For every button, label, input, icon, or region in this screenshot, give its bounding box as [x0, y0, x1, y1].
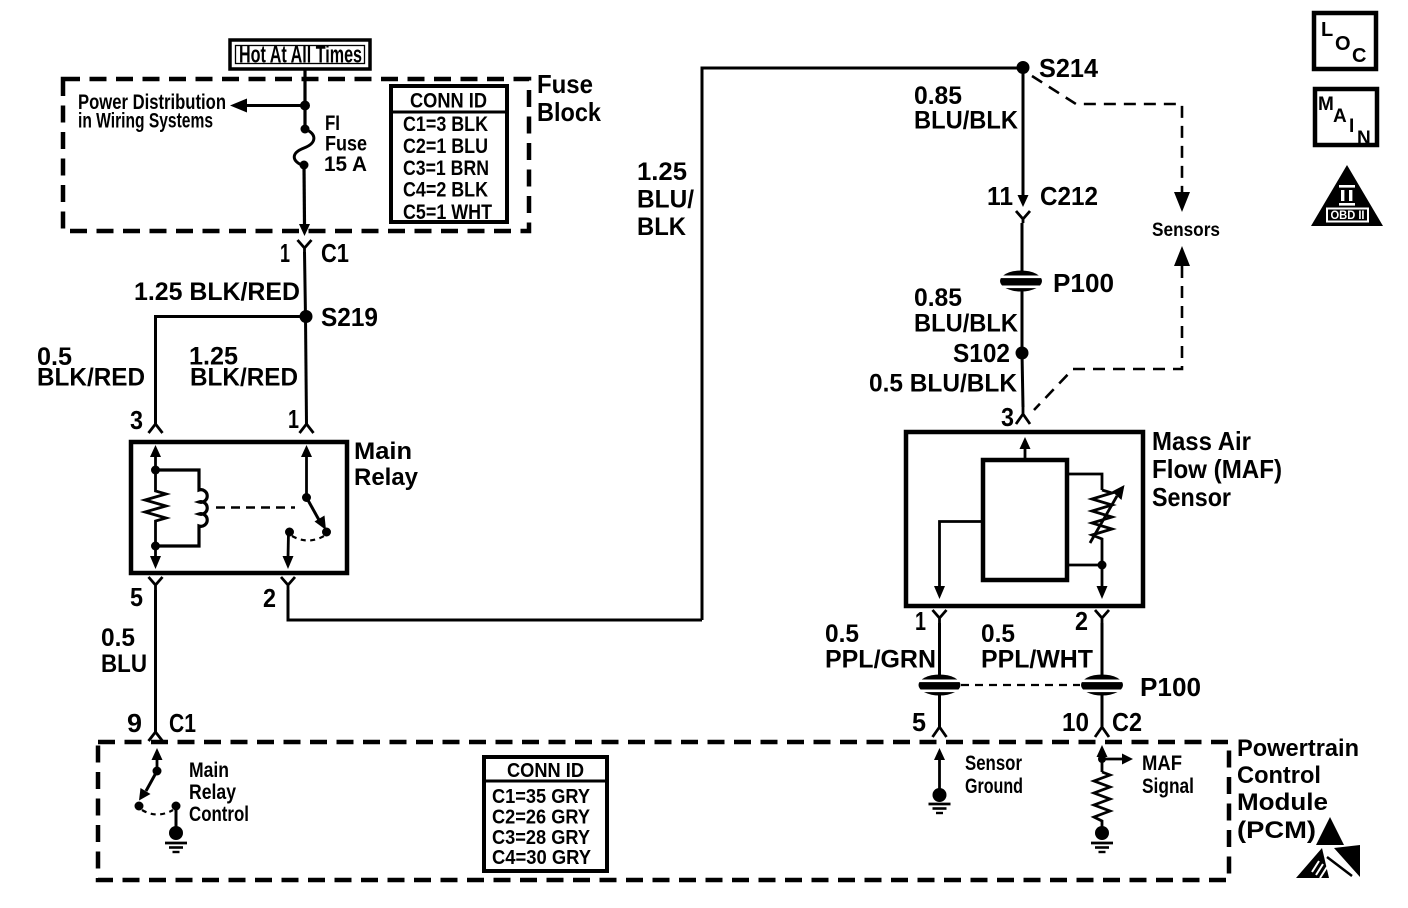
svg-text:C1=3 BLK: C1=3 BLK [403, 113, 488, 136]
svg-text:3: 3 [1001, 402, 1014, 432]
relay switch arm [307, 498, 327, 531]
svg-text:Hot At All Times: Hot At All Times [239, 42, 362, 69]
svg-text:P100: P100 [1140, 672, 1201, 702]
junction on fuse feed [300, 101, 310, 111]
label Sensor Ground [965, 752, 1023, 798]
connector C212 male arrow [1018, 195, 1029, 207]
svg-text:N: N [1357, 128, 1371, 149]
svg-text:PPL/GRN: PPL/GRN [825, 646, 936, 674]
svg-text:Powertrain: Powertrain [1237, 735, 1359, 762]
relay coil top junction [151, 466, 160, 475]
MAF pin 3 fork [1016, 407, 1030, 424]
svg-text:Control: Control [189, 803, 249, 826]
dashed grommet link [961, 684, 1080, 686]
wire label 1.25 BLU/BLK [637, 158, 694, 241]
svg-text:0.85: 0.85 [914, 284, 962, 312]
svg-text:C212: C212 [1040, 181, 1098, 211]
svg-text:9: 9 [127, 708, 142, 738]
MAIN legend box [1315, 89, 1377, 149]
wire label 0.85 BLU/BLK lower [914, 284, 1018, 338]
sensors arrow down [1174, 192, 1190, 212]
relay switch contact right [322, 528, 331, 537]
svg-text:Relay: Relay [189, 781, 236, 804]
svg-text:C1: C1 [321, 238, 349, 268]
MAF internal module box [983, 460, 1067, 580]
svg-text:MAF: MAF [1142, 752, 1182, 775]
ESD warning symbol [1296, 817, 1360, 878]
wire pin 5 down to PCM pin 9 [154, 590, 157, 732]
wire P100 to PCM pin 10 [1101, 694, 1104, 727]
connector C212 female fork [1016, 211, 1030, 223]
svg-text:A: A [1333, 106, 1347, 127]
relay switch travel arc [292, 536, 324, 541]
svg-text:C4=2 BLK: C4=2 BLK [403, 179, 488, 202]
svg-text:C3=28 GRY: C3=28 GRY [492, 827, 591, 849]
splice S102 [1016, 347, 1029, 360]
MAF pin 2 fork [1095, 610, 1109, 623]
OBD II badge [1311, 165, 1383, 226]
svg-text:BLK: BLK [637, 213, 686, 241]
svg-text:C: C [1352, 45, 1366, 67]
svg-text:2: 2 [1075, 606, 1088, 636]
MAF signal node [1098, 755, 1106, 763]
svg-text:Main: Main [354, 438, 412, 465]
svg-text:15 A: 15 A [324, 153, 367, 176]
driver switch arm [139, 771, 157, 801]
svg-text:10: 10 [1062, 707, 1089, 737]
svg-text:Relay: Relay [354, 464, 419, 491]
svg-text:Mass Air: Mass Air [1152, 426, 1251, 456]
wire label 0.5 PPL/WHT [981, 620, 1093, 674]
MAF signal tap arrow [1102, 754, 1133, 765]
svg-text:BLU/: BLU/ [637, 186, 694, 214]
driver contact right [172, 802, 181, 811]
svg-text:C2=26 GRY: C2=26 GRY [492, 807, 591, 829]
MAF signal internal arrow [1097, 745, 1108, 772]
pass-through P100 grommet left [919, 675, 961, 696]
svg-text:CONN ID: CONN ID [507, 760, 584, 782]
svg-text:Sensor: Sensor [1152, 482, 1231, 512]
sensors arrow up [1174, 246, 1190, 266]
main relay control driver arrow [152, 748, 163, 771]
MAF internal wire module to node [1067, 564, 1102, 567]
MAF node to pin 2 arrow [1097, 565, 1108, 599]
label Powertrain Control Module (PCM) [1237, 735, 1359, 844]
wire S102 to MAF pin 3 [1022, 353, 1023, 407]
pin 2 fork [281, 577, 295, 590]
relay coil bottom junction [151, 542, 160, 551]
wire fuse to connector C1 [302, 165, 306, 225]
dashed sensors return to S102 [1034, 266, 1182, 410]
svg-text:Module: Module [1237, 789, 1328, 816]
wire contact to ground [175, 806, 178, 830]
relay pin 3 internal arrow [150, 445, 161, 470]
CONN ID table (PCM) [484, 757, 607, 871]
svg-text:Flow (MAF): Flow (MAF) [1152, 454, 1282, 484]
svg-text:BLU: BLU [101, 650, 147, 678]
svg-text:S102: S102 [953, 338, 1010, 368]
dashed sensors tap from S214 [1032, 76, 1182, 194]
relay switch contact left [285, 528, 294, 537]
wire S219 branch left [156, 317, 307, 425]
svg-text:S214: S214 [1039, 53, 1099, 83]
pin 3 fork [149, 424, 163, 433]
relay coil [156, 470, 208, 546]
wire pin 2 to riser [288, 590, 702, 620]
wire from hot bus to fuse [303, 69, 306, 128]
svg-text:C4=30 GRY: C4=30 GRY [492, 847, 592, 869]
svg-text:L: L [1321, 19, 1333, 41]
pass-through P100 grommet right [1081, 675, 1123, 696]
driver travel arc [142, 810, 173, 815]
splice S214 [1017, 61, 1030, 74]
MAF internal wire to pin 1 [934, 522, 983, 600]
svg-text:S219: S219 [321, 302, 378, 332]
relay actuation dashed link [216, 506, 295, 509]
svg-text:C1: C1 [169, 708, 196, 738]
pulldown ground symbol [1091, 843, 1113, 852]
svg-text:Control: Control [1237, 762, 1321, 789]
wire MAF pin 2 to P100 [1101, 623, 1104, 676]
pass-through P100 grommet [1000, 271, 1042, 292]
svg-text:BLK/RED: BLK/RED [37, 364, 145, 392]
driver switch pivot [153, 767, 162, 776]
wire P100 to PCM pin 5 [938, 694, 941, 727]
svg-text:1: 1 [280, 238, 290, 268]
svg-text:O: O [1335, 33, 1351, 55]
svg-text:in Wiring Systems: in Wiring Systems [78, 110, 213, 133]
svg-text:C1=35 GRY: C1=35 GRY [492, 786, 591, 808]
wire label 0.5 BLU [101, 624, 147, 678]
driver contact left [135, 802, 144, 811]
label Main Relay Control [189, 759, 249, 826]
svg-text:I: I [1349, 116, 1354, 137]
main relay box [131, 442, 347, 573]
wire riser to S214 [702, 68, 1023, 620]
svg-text:C2=1 BLU: C2=1 BLU [403, 135, 488, 158]
MAF sensor box [906, 432, 1143, 606]
svg-text:BLK/RED: BLK/RED [190, 364, 298, 392]
svg-text:Block: Block [537, 97, 601, 127]
svg-text:0.5 BLU/BLK: 0.5 BLU/BLK [869, 370, 1017, 398]
wire contact to pin 2 arrow [283, 532, 294, 569]
MAF pin 3 internal arrow [1020, 437, 1031, 460]
relay resistor [145, 470, 166, 546]
label Main Relay [354, 438, 419, 491]
label MAF Signal [1142, 752, 1194, 798]
svg-text:CONN ID: CONN ID [410, 90, 487, 113]
CONN ID table (fuse block) [391, 86, 507, 224]
svg-text:C5=1 WHT: C5=1 WHT [403, 201, 492, 224]
svg-text:3: 3 [130, 405, 143, 435]
ground stud [169, 826, 183, 840]
svg-text:PPL/WHT: PPL/WHT [981, 646, 1093, 674]
relay switch pivot [302, 493, 311, 502]
PCM dashed enclosure [98, 742, 1229, 880]
svg-text:BLU/BLK: BLU/BLK [914, 107, 1018, 135]
pulldown ground stud [1095, 826, 1109, 840]
connector C1 male arrow [299, 224, 310, 236]
wire S219 down to relay pin 1 [306, 317, 307, 425]
relay pin 1 internal arrow [301, 445, 312, 497]
svg-text:5: 5 [912, 707, 926, 737]
wire P100 to S102 [1021, 291, 1024, 353]
wire label 0.85 BLU/BLK [914, 82, 1018, 135]
svg-text:1: 1 [288, 404, 299, 434]
svg-text:0.5: 0.5 [101, 624, 135, 652]
sensor ground internal arrow [934, 748, 945, 789]
svg-text:Signal: Signal [1142, 775, 1194, 798]
svg-text:1.25: 1.25 [637, 158, 687, 186]
PCM pulldown resistor [1094, 772, 1110, 827]
svg-text:2: 2 [263, 583, 276, 613]
pin 5 fork [149, 577, 163, 590]
MAF pin 1 fork [933, 610, 947, 623]
svg-text:1.25 BLK/RED: 1.25 BLK/RED [134, 278, 300, 306]
svg-text:C2: C2 [1112, 707, 1142, 737]
label Power Distribution in Wiring Systems [78, 91, 226, 133]
wire S214 to C212 [1022, 68, 1025, 196]
ground symbol [165, 843, 187, 852]
label Fuse Block [537, 69, 601, 127]
wire C212 to P100 [1021, 223, 1024, 272]
wire label 0.5 BLK/RED [37, 343, 145, 392]
label FI Fuse 15 A [324, 112, 367, 176]
fuse block dashed enclosure [63, 79, 529, 231]
svg-text:0.5: 0.5 [825, 620, 859, 648]
svg-text:Main: Main [189, 759, 229, 782]
svg-text:(PCM): (PCM) [1237, 817, 1316, 844]
svg-text:1: 1 [915, 606, 926, 636]
pin 1 fork [300, 424, 314, 433]
svg-text:BLU/BLK: BLU/BLK [914, 310, 1018, 338]
svg-text:Fuse: Fuse [537, 69, 593, 99]
PCM pin 9 fork [149, 732, 163, 741]
svg-text:M: M [1318, 94, 1334, 115]
wire coil to pin 5 arrow [150, 546, 161, 569]
wire label 0.5 PPL/GRN [825, 620, 936, 674]
svg-text:Sensor: Sensor [965, 752, 1022, 775]
MAF internal wire to sense resistor [1067, 474, 1102, 490]
LOC legend box [1314, 13, 1376, 69]
fuse FI 15A symbol [294, 125, 314, 170]
PCM pin 5 fork [933, 727, 947, 737]
svg-text:5: 5 [130, 582, 143, 612]
PCM pin 10 fork [1095, 727, 1109, 737]
wire C1 to S219 [305, 252, 306, 317]
wire MAF pin 1 to P100 [938, 623, 941, 676]
svg-text:11: 11 [987, 181, 1013, 211]
svg-text:Sensors: Sensors [1152, 220, 1220, 241]
sensor ground stud [933, 788, 947, 802]
svg-text:C3=1 BRN: C3=1 BRN [403, 157, 489, 180]
sensor ground symbol [929, 804, 951, 813]
svg-text:Ground: Ground [965, 775, 1023, 798]
svg-text:P100: P100 [1053, 268, 1114, 298]
wire to power distribution with left arrow [230, 99, 305, 113]
wire label 1.25 BLK/RED (relay feed) [189, 343, 298, 392]
svg-text:OBD II: OBD II [1331, 210, 1365, 222]
splice S219 [300, 310, 313, 323]
connector C1 female fork [298, 240, 312, 252]
label Mass Air Flow (MAF) Sensor [1152, 426, 1282, 512]
svg-text:0.5: 0.5 [981, 620, 1015, 648]
label box Hot At All Times [230, 40, 370, 69]
MAF variable resistor [1090, 485, 1125, 565]
MAF internal node [1098, 561, 1107, 570]
